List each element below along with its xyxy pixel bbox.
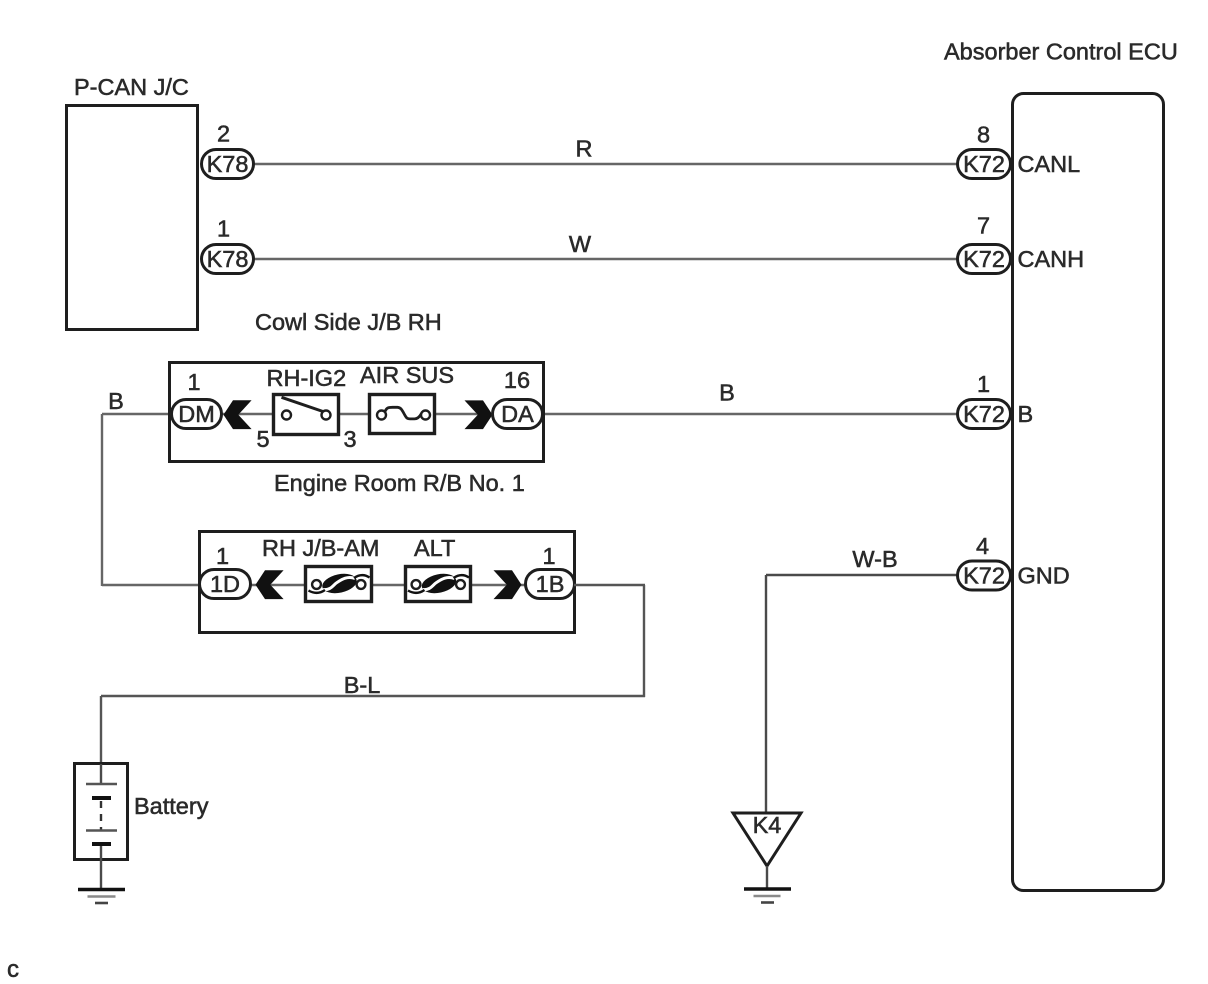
svg-text:ALT: ALT [414,535,455,561]
connector arrow left (DM) [224,400,252,429]
wire B vertical drop [101,414,103,586]
connector DA pin 16 [493,367,543,429]
svg-text:B: B [719,380,735,406]
svg-text:Absorber Control ECU: Absorber Control ECU [944,39,1178,65]
wire B-L from 1B to battery [101,585,645,764]
wire through Engine Room R/B [200,584,574,586]
junction block P-CAN J/C [67,74,198,330]
wire W (CANH) [254,231,958,259]
relay block Engine Room R/B No. 1 [200,470,575,633]
wire B right segment (DA to K72 pin1) [543,380,958,415]
svg-text:W-B: W-B [852,546,897,572]
wire below K4 [766,866,768,889]
ground symbol battery [78,890,125,904]
connector arrow right (DA) [465,400,493,429]
svg-text:1: 1 [977,371,990,397]
svg-text:R: R [576,136,593,162]
connector 1D pin 1 [200,543,251,599]
fuse AIR SUS [360,362,454,434]
battery B1 [75,764,209,890]
connector 1B pin 1 [526,543,575,599]
svg-text:c: c [7,956,19,983]
svg-text:1: 1 [542,543,555,569]
svg-text:DA: DA [501,401,534,427]
svg-text:1: 1 [217,216,230,242]
svg-text:Engine Room R/B No. 1: Engine Room R/B No. 1 [274,470,525,496]
svg-text:K72: K72 [963,401,1005,427]
svg-text:1: 1 [187,369,200,395]
svg-text:3: 3 [343,426,356,452]
wire R (CANL) [254,136,958,165]
svg-text:Battery: Battery [134,793,209,819]
svg-text:P-CAN J/C: P-CAN J/C [74,74,189,100]
connector K72 pin 4 GND [958,533,1070,590]
svg-text:B: B [108,388,124,414]
connector K78 pin 1 [202,216,254,274]
svg-text:RH J/B-AM: RH J/B-AM [262,535,380,561]
ECU box U1 Absorber Control ECU [944,39,1178,891]
wire B lower horizontal to 1D [102,584,200,586]
junction block Cowl Side J/B RH [170,309,544,462]
wire B left segment (DM to vertical) [102,388,171,414]
ground symbol K4 [744,889,791,903]
wire through Cowl Side J/B [170,413,543,415]
svg-text:1: 1 [216,543,229,569]
svg-text:16: 16 [504,367,530,393]
svg-text:Cowl Side J/B RH: Cowl Side J/B RH [255,309,442,335]
connector arrow left (1D) [256,570,284,599]
svg-text:K78: K78 [207,246,249,272]
connector K72 pin 8 CANL [958,122,1081,179]
svg-text:7: 7 [977,213,990,239]
svg-text:2: 2 [217,121,230,147]
switch RH-IG2 [256,365,356,452]
svg-text:1B: 1B [536,571,565,597]
svg-text:DM: DM [178,401,215,427]
ground point K4 triangle [733,812,801,866]
svg-text:K78: K78 [207,151,249,177]
svg-text:K72: K72 [963,246,1005,272]
connector K72 pin 7 CANH [958,213,1085,274]
connector arrow right (1B) [494,570,522,599]
svg-text:K72: K72 [963,151,1005,177]
fusible link ALT [406,535,471,602]
svg-text:B: B [1018,401,1034,427]
svg-text:1D: 1D [210,571,240,597]
svg-text:K4: K4 [753,812,782,838]
svg-text:CANL: CANL [1018,151,1081,177]
svg-text:CANH: CANH [1018,246,1085,272]
svg-text:5: 5 [256,426,269,452]
svg-text:8: 8 [977,122,990,148]
svg-text:K72: K72 [963,563,1005,589]
connector K72 pin 1 B [958,371,1034,429]
svg-text:4: 4 [976,533,989,559]
svg-text:W: W [569,231,592,257]
connector K78 pin 2 [202,121,254,179]
svg-text:RH-IG2: RH-IG2 [267,365,347,391]
connector DM pin 1 [172,369,222,429]
svg-text:GND: GND [1018,563,1070,589]
svg-text:B-L: B-L [344,672,381,698]
fusible link RH J/B-AM [262,535,380,602]
svg-text:AIR SUS: AIR SUS [360,362,454,388]
wire W-B (GND) [766,546,958,814]
